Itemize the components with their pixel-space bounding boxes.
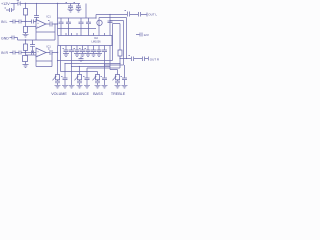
op-amp U1a: [36, 20, 46, 29]
node U1a out junction: [57, 23, 58, 24]
svg-text:+: +: [37, 22, 39, 25]
wire pin9 chain with cap C28: [102, 46, 107, 78]
wire input R: [10, 52, 37, 54]
wire riser pin10: [109, 15, 111, 36]
wire bus B5: [110, 46, 118, 70]
ground (C13): [76, 9, 82, 12]
ground (C29): [62, 85, 68, 88]
ground (P2): [77, 85, 83, 88]
svg-text:IN L: IN L: [1, 20, 7, 24]
wire pin7 riser chain: [69, 46, 74, 86]
capacitor C14 (bus cap): [59, 18, 64, 36]
svg-text:TREBLE: TREBLE: [111, 92, 126, 96]
capacitor C20: [108, 21, 113, 23]
ground (P4): [115, 85, 121, 88]
capacitor C33 (drop to U1b input): [30, 40, 35, 53]
wire bus B1: [58, 60, 113, 62]
wire U1b output: [46, 52, 58, 54]
svg-text:LM1036: LM1036: [91, 40, 101, 43]
ground (R2): [23, 33, 29, 38]
wire +12V drop to IC: [57, 4, 59, 53]
wire bus B3: [72, 66, 111, 68]
wire input L: [10, 21, 37, 23]
capacitor C13 (rail decouple 2): [74, 3, 82, 10]
ground (bias chain): [23, 65, 29, 68]
ground (C31): [122, 85, 128, 88]
svg-text:IC1: IC1: [47, 45, 52, 49]
wire right loop 2: [113, 24, 121, 69]
ground (C34): [91, 54, 97, 57]
capacitor C12 (rail decouple 1): [66, 3, 74, 10]
svg-text:-: -: [37, 26, 38, 29]
capacitor C30 (balance pin): [83, 68, 90, 85]
capacitor C10: [32, 51, 34, 55]
svg-text:IC1: IC1: [47, 15, 52, 19]
ground (C25): [96, 54, 102, 57]
resistor R1 (bias top): [25, 4, 27, 9]
ground (P3): [95, 85, 101, 88]
capacitor C34 (pin bypass): [91, 46, 96, 54]
capacitor C27 (out R): [143, 57, 145, 62]
wire U1a output: [46, 23, 58, 25]
svg-text:OUT R: OUT R: [150, 58, 160, 62]
potentiometer P1 VOLUME: [57, 53, 59, 75]
capacitor C7 (gnd decouple): [12, 36, 14, 40]
capacitor C15 (bus cap): [66, 18, 71, 36]
capacitor C6 (output L buffer): [48, 21, 52, 27]
node junction rail/IC feed: [57, 3, 58, 4]
capacitor C18 (out L): [139, 12, 141, 17]
label 12V mid right: [136, 33, 142, 37]
capacitor C16 (bus cap): [79, 18, 84, 36]
potentiometer P2 BALANCE: [79, 67, 81, 75]
ground (C22): [74, 54, 80, 57]
op-amp U1b: [36, 48, 46, 57]
svg-text:+12V: +12V: [1, 2, 10, 6]
wire +12V rail: [11, 3, 81, 5]
capacitor C17 (out L electrolytic): [125, 11, 130, 17]
capacitor C9: [19, 51, 21, 55]
wire R4 to ground: [25, 62, 27, 65]
wire bus corner down: [95, 15, 97, 19]
capacitor C26 (out R electrolytic): [129, 56, 134, 62]
capacitor C35 (second row): [79, 57, 84, 63]
svg-text:OUT L: OUT L: [148, 13, 157, 17]
node OUT R terminal: [148, 57, 150, 61]
svg-text:IN R: IN R: [1, 51, 8, 55]
capacitor C24 (pin 6 bypass): [85, 46, 91, 54]
wire gnd net: [10, 38, 18, 41]
svg-text:BALANCE: BALANCE: [72, 92, 90, 96]
node A junction: [25, 21, 26, 22]
svg-text:BASS: BASS: [93, 92, 103, 96]
wire top bus lower: [58, 28, 97, 30]
svg-text:12V: 12V: [144, 33, 149, 37]
ground (pin7 chain): [69, 85, 75, 88]
potentiometer P3 BASS: [97, 72, 99, 75]
wire R3 to node B: [25, 51, 27, 56]
resistor R5 (right side): [118, 50, 122, 56]
svg-text:+: +: [37, 51, 39, 54]
capacitor C3: [13, 20, 15, 24]
resistor R4 (bias bottom): [23, 56, 28, 62]
svg-text:VOLUME: VOLUME: [51, 92, 67, 96]
capacitor C29 (volume pin): [61, 64, 68, 86]
node OUT L terminal: [146, 13, 148, 17]
capacitor C23 (pin 5 bypass): [79, 46, 85, 54]
wire U1b feedback loop: [26, 53, 53, 67]
resistor R2 (bias mid): [24, 27, 28, 33]
wire U1a feedback: [18, 24, 56, 40]
capacitor C4: [19, 20, 21, 24]
capacitor C8: [13, 51, 15, 55]
capacitor C28 plates (bass pin): [101, 77, 108, 86]
ground (C30): [84, 85, 90, 88]
capacitor C32 (bias drop to U1a input): [34, 4, 39, 22]
capacitor C16b (bus cap): [86, 18, 91, 36]
wire OUT R line: [120, 58, 148, 60]
capacitor C31 (treble pin): [121, 65, 128, 85]
wire H40 to R3: [25, 40, 27, 44]
ground (C24): [85, 54, 91, 57]
ground (C23): [80, 54, 86, 57]
wire out-L line: [96, 14, 147, 16]
wire right loop 1: [110, 21, 124, 66]
wire bus B4: [61, 46, 98, 72]
ground (C21): [63, 54, 69, 57]
ground (C12): [68, 9, 74, 12]
ground (P1): [55, 85, 61, 88]
capacitor C5: [32, 20, 34, 24]
IC U2 box: [58, 36, 112, 46]
resistor R3 (bias lower): [24, 44, 28, 51]
wire bus B2: [65, 63, 120, 65]
capacitor C19 (circle body): [97, 20, 102, 25]
node U1b out junction: [57, 52, 58, 53]
capacitor C25 (pin 8 bypass): [97, 46, 102, 54]
node junction rail/bias: [25, 3, 26, 4]
capacitor C21 (pin 2 bypass): [63, 46, 69, 54]
capacitor C1 (series element on rail): [17, 1, 21, 6]
wire IC pin riser with cap C19: [98, 18, 100, 36]
potentiometer P4 TREBLE: [117, 70, 119, 75]
wire bus B6 (right bottom): [87, 65, 124, 68]
wire mid bus to OUT R: [99, 18, 127, 59]
svg-text:-: -: [37, 54, 38, 57]
svg-text:GND: GND: [1, 36, 9, 40]
wire top bus upper: [58, 17, 97, 19]
ground (C28): [102, 85, 108, 88]
node B junction: [25, 52, 26, 53]
wire rail drop to top bus: [85, 4, 87, 19]
wire bias to node A: [25, 15, 27, 27]
capacitor C22 (pin 4 bypass): [74, 46, 80, 54]
capacitor C2 (rail filter, horizontal): [5, 4, 15, 13]
IC top pin stubs: [66, 33, 105, 36]
capacitor C11 (output R buffer): [48, 49, 52, 55]
